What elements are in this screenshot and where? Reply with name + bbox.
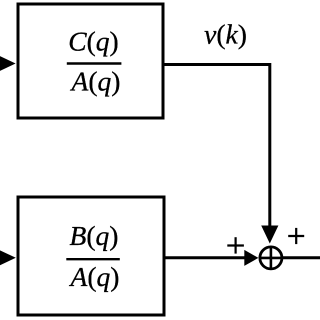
svg-text:v(k): v(k) bbox=[204, 19, 247, 50]
svg-text:B(q): B(q) bbox=[70, 220, 119, 251]
svg-text:A(q): A(q) bbox=[70, 65, 121, 96]
svg-text:A(q): A(q) bbox=[69, 261, 120, 292]
svg-text:C(q): C(q) bbox=[68, 26, 118, 57]
